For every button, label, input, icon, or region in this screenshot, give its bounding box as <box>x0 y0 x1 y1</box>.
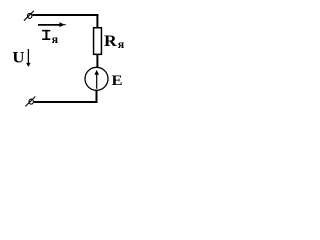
svg-text:я: я <box>52 32 59 46</box>
svg-text:U: U <box>12 48 24 67</box>
svg-text:R: R <box>104 32 118 50</box>
svg-text:E: E <box>111 73 122 89</box>
svg-text:я: я <box>118 37 125 51</box>
